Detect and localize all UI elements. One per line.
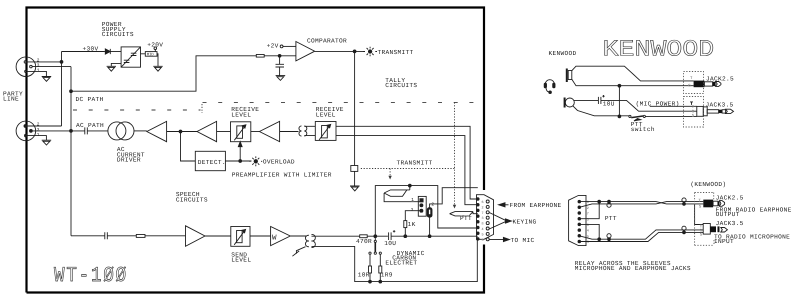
capacitor C-comp — [276, 56, 285, 76]
wire U1 output +20V — [141, 54, 159, 67]
connector XLR J2 (party line lower) — [16, 121, 36, 141]
connector earphone socket — [566, 69, 568, 83]
relay contact earphone — [607, 203, 611, 207]
wire mic bus riser — [375, 186, 478, 237]
wire A1 to A2 — [167, 131, 197, 133]
svg-text:OVERLOAD: OVERLOAD — [263, 159, 295, 166]
capacitor 10U electrolytic — [389, 232, 478, 240]
svg-text:(KENWOOD): (KENWOOD) — [690, 181, 726, 188]
wire J2 pin2 to vertical bus — [27, 125, 62, 127]
svg-text:OUTPUT: OUTPUT — [716, 211, 740, 218]
divider dashed DC/AC — [73, 109, 201, 111]
svg-text:TRANSMITT: TRANSMITT — [397, 160, 433, 167]
wire A5 to transformer T3 — [290, 235, 306, 237]
svg-text:10R: 10R — [358, 272, 370, 279]
svg-text:8: 8 — [587, 223, 589, 228]
D-sub pin numbers — [482, 200, 484, 243]
attenuator receive level 1 — [231, 122, 251, 142]
resistor R-dc inline — [256, 55, 264, 58]
svg-text:CIRCUITS: CIRCUITS — [385, 82, 417, 89]
resistor 10R — [369, 254, 371, 266]
arrow KEYING — [490, 213, 507, 229]
power supply converter U1 — [121, 47, 140, 67]
ground under R-tally — [350, 186, 360, 191]
svg-text:1K: 1K — [408, 221, 416, 228]
relay D-sub pin numbers — [587, 200, 589, 245]
svg-text:PTT: PTT — [605, 215, 617, 222]
wire +30V feed — [62, 51, 105, 53]
wire mic sleeve to PTT switch — [573, 106, 629, 116]
resistor R-speech inline — [136, 235, 145, 238]
node rail dots — [369, 280, 372, 283]
svg-text:2: 2 — [587, 206, 589, 211]
svg-text:5: 5 — [482, 238, 484, 243]
svg-text:switch: switch — [631, 126, 655, 133]
svg-text:9: 9 — [482, 232, 484, 237]
wire J1 pin2 to +30V node — [27, 61, 62, 63]
wire PTT bracket lower — [579, 224, 599, 239]
wire receive pair to connector — [336, 126, 478, 199]
svg-text:TO MIC: TO MIC — [511, 237, 535, 244]
svg-text:DC PATH: DC PATH — [76, 96, 104, 103]
ground under J1 — [42, 77, 52, 82]
wire comparator output — [315, 50, 365, 52]
arrow FROM EARPHONE — [499, 203, 506, 207]
svg-text:KENWOOD: KENWOOD — [549, 50, 577, 57]
svg-text:T: T — [690, 76, 693, 81]
svg-text:2: 2 — [482, 205, 484, 210]
svg-text:INPUT: INPUT — [714, 238, 734, 245]
wire speech feed — [71, 235, 105, 237]
svg-text:1R9: 1R9 — [381, 272, 393, 279]
svg-text:+30V: +30V — [83, 45, 99, 52]
resistor R-tally — [351, 166, 358, 172]
wire mic hot through 10U — [574, 97, 697, 111]
svg-text:CIRCUITS: CIRCUITS — [102, 31, 134, 38]
switch PTT — [629, 115, 631, 117]
connector mic 3pin block — [418, 196, 426, 216]
wire T3 secondary top — [312, 235, 360, 237]
node mic bus junction — [374, 235, 377, 238]
wire mic pair bottom — [579, 230, 703, 239]
lamp TRANSMITT indicator — [363, 47, 377, 57]
op-amp A1 line driver — [147, 121, 167, 141]
svg-text:LEVEL: LEVEL — [231, 257, 251, 264]
connector D-sub relay side — [569, 195, 586, 245]
svg-text:2: 2 — [431, 201, 434, 207]
svg-text:1: 1 — [411, 198, 414, 203]
wire A4 to send level — [205, 235, 231, 237]
diode D1 — [105, 49, 110, 54]
wire J2 pin3 to AC path — [32, 130, 71, 132]
node 1K junction — [404, 235, 407, 238]
svg-text:LEVEL: LEVEL — [316, 111, 336, 118]
earphone element symbol — [384, 186, 410, 197]
transformer T1 AC current driver — [108, 122, 126, 140]
svg-text:PREAMPLIFIER WITH LIMITER: PREAMPLIFIER WITH LIMITER — [232, 171, 332, 178]
capacitor C-ac inline — [71, 127, 108, 134]
wire J1 pin3 to DC/AC trunk — [32, 66, 71, 68]
ground under U1 left — [107, 63, 122, 71]
wire earphone sleeve — [572, 79, 694, 85]
svg-text:10U: 10U — [384, 240, 396, 247]
svg-text:LEVEL: LEVEL — [231, 111, 251, 118]
svg-text:3: 3 — [411, 207, 414, 213]
ground under J2 — [42, 140, 52, 145]
svg-text:COMPARATOR: COMPARATOR — [307, 37, 347, 44]
wire send level to limiter amp — [250, 235, 271, 237]
svg-text:CIRCUITS: CIRCUITS — [176, 196, 208, 203]
transformer T3 output — [305, 234, 315, 247]
relay contact at jack2.5 — [682, 198, 686, 202]
ground under +20V — [153, 66, 162, 71]
svg-text:JACK2.5: JACK2.5 — [716, 195, 744, 202]
relay contact at jack3.5 — [682, 226, 686, 230]
wire sleeve tie vertical — [618, 86, 620, 117]
resistor 1K — [405, 211, 421, 221]
svg-text:JACK3.5: JACK3.5 — [716, 220, 744, 227]
dotted panel jack2.5 radio — [695, 193, 714, 220]
op-amp A5 with limiter mark — [271, 227, 291, 246]
plug JACK2.5 kenwood — [688, 76, 721, 88]
XLR J1 pin labels 2 3 1 — [37, 58, 40, 74]
op-amp A4 send amp — [186, 226, 206, 247]
svg-text:470R: 470R — [356, 238, 372, 245]
svg-text:4: 4 — [587, 229, 589, 234]
connector mic element — [564, 98, 566, 108]
svg-text:LINE: LINE — [3, 96, 19, 103]
wire capsule bottom — [429, 217, 431, 236]
plug JACK3.5 kenwood — [690, 102, 734, 119]
svg-text:W: W — [272, 235, 277, 243]
wire detect input from junction — [181, 132, 196, 162]
wire capsule to pin2 route — [430, 188, 478, 208]
svg-text:DETECT.: DETECT. — [198, 159, 226, 166]
svg-text:+2V: +2V — [267, 43, 279, 50]
svg-text:6: 6 — [482, 200, 484, 205]
node DC trunk junction — [70, 67, 72, 236]
plug JACK2.5 radio — [698, 198, 724, 209]
wire vertical bus pin2-pin2 with +30V tap — [61, 52, 63, 127]
svg-text:10U: 10U — [603, 101, 615, 108]
svg-text:3: 3 — [482, 216, 484, 221]
wire earphone tip to pin1 — [384, 193, 420, 202]
svg-text:MICROPHONE AND EARPHONE JACKS: MICROPHONE AND EARPHONE JACKS — [575, 265, 691, 272]
resistor 1R9 — [379, 254, 381, 266]
lamp OVERLOAD indicator — [249, 156, 262, 166]
op-amp A2 preamp — [197, 121, 217, 141]
connector XLR J1 (party line upper) — [16, 57, 36, 77]
svg-text:KENWOOD: KENWOOD — [603, 37, 715, 63]
relay contact mic — [607, 234, 611, 238]
wire A2 to receive level 1 — [217, 131, 231, 133]
arrow TO MIC — [490, 239, 505, 241]
wire T3 screen stub — [292, 247, 305, 257]
electret capsule — [427, 208, 432, 218]
svg-text:WT-1ØØ: WT-1ØØ — [54, 265, 128, 288]
svg-text:+20V: +20V — [147, 42, 163, 49]
wire earphone pair top — [579, 202, 703, 204]
switch mic select — [369, 236, 382, 254]
connector D-sub main — [477, 195, 494, 241]
icon headset — [544, 80, 555, 94]
svg-text:PTT: PTT — [460, 215, 472, 222]
resistor 470R — [360, 235, 368, 238]
svg-text:ELECTRET: ELECTRET — [385, 260, 417, 267]
svg-text:3: 3 — [587, 217, 589, 222]
wire J1 pin1 to ground — [27, 71, 46, 76]
svg-text:AC PATH: AC PATH — [76, 122, 104, 129]
wire RL1 to amp A3 — [251, 131, 260, 133]
svg-text:2: 2 — [37, 122, 40, 128]
wire detect output to AGC arrow — [225, 160, 251, 162]
attenuator receive level 2 — [315, 122, 336, 141]
svg-text:MID: MID — [147, 52, 154, 57]
wire T3 secondary bottom loop — [312, 241, 478, 282]
svg-text:DRIVER: DRIVER — [117, 157, 141, 164]
dotted panel jack3.5 radio — [695, 219, 714, 245]
svg-text:4: 4 — [482, 227, 484, 232]
svg-text:T: T — [692, 105, 695, 110]
transformer T2 coupling — [299, 126, 315, 136]
svg-text:7: 7 — [587, 212, 589, 217]
box DETECT — [195, 151, 225, 170]
dotted panel jack2.5 — [684, 72, 704, 94]
label box MID — [145, 52, 157, 57]
node comparator input junction — [278, 54, 281, 57]
svg-text:S: S — [699, 204, 702, 209]
ground under C-comp — [276, 76, 286, 81]
wire J2 pin1 to ground — [27, 136, 46, 141]
wire A3 to transformer T2 — [280, 131, 299, 133]
svg-text:TRANSMITT: TRANSMITT — [378, 49, 414, 56]
border frame — [27, 8, 485, 293]
dotted panel jack3.5 — [684, 97, 704, 128]
svg-text:8: 8 — [482, 222, 484, 227]
op-amp comparator U2 — [296, 42, 315, 61]
wire tally drop to limiter resistor — [354, 51, 356, 165]
svg-text:FROM EARPHONE: FROM EARPHONE — [510, 202, 562, 209]
svg-text:S: S — [700, 233, 703, 238]
op-amp A3 — [259, 121, 279, 141]
attenuator send level — [231, 227, 250, 247]
svg-text:5: 5 — [587, 240, 589, 245]
PTT element symbol — [450, 212, 478, 216]
wire sleeve to jack3.5 tip — [695, 204, 704, 225]
capacitor C-speech inline — [105, 232, 137, 239]
wire AGC control arrow into RL1 — [239, 147, 241, 162]
plug JACK3.5 radio — [700, 224, 728, 238]
wire PTT bracket upper — [579, 202, 599, 219]
XLR J2 pin labels 2 3 1 — [37, 122, 40, 138]
svg-text:JACK3.5: JACK3.5 — [706, 102, 734, 109]
svg-text:7: 7 — [482, 211, 484, 216]
svg-text:JACK2.5: JACK2.5 — [706, 75, 734, 82]
svg-text:T: T — [698, 198, 701, 203]
wire T1 to amp A1 — [134, 130, 147, 132]
node preamp junction — [179, 130, 182, 133]
wire earphone hot to jack2.5 tip — [572, 66, 694, 81]
wire DC path to comparator — [71, 56, 256, 91]
svg-text:KEYING: KEYING — [513, 218, 537, 225]
